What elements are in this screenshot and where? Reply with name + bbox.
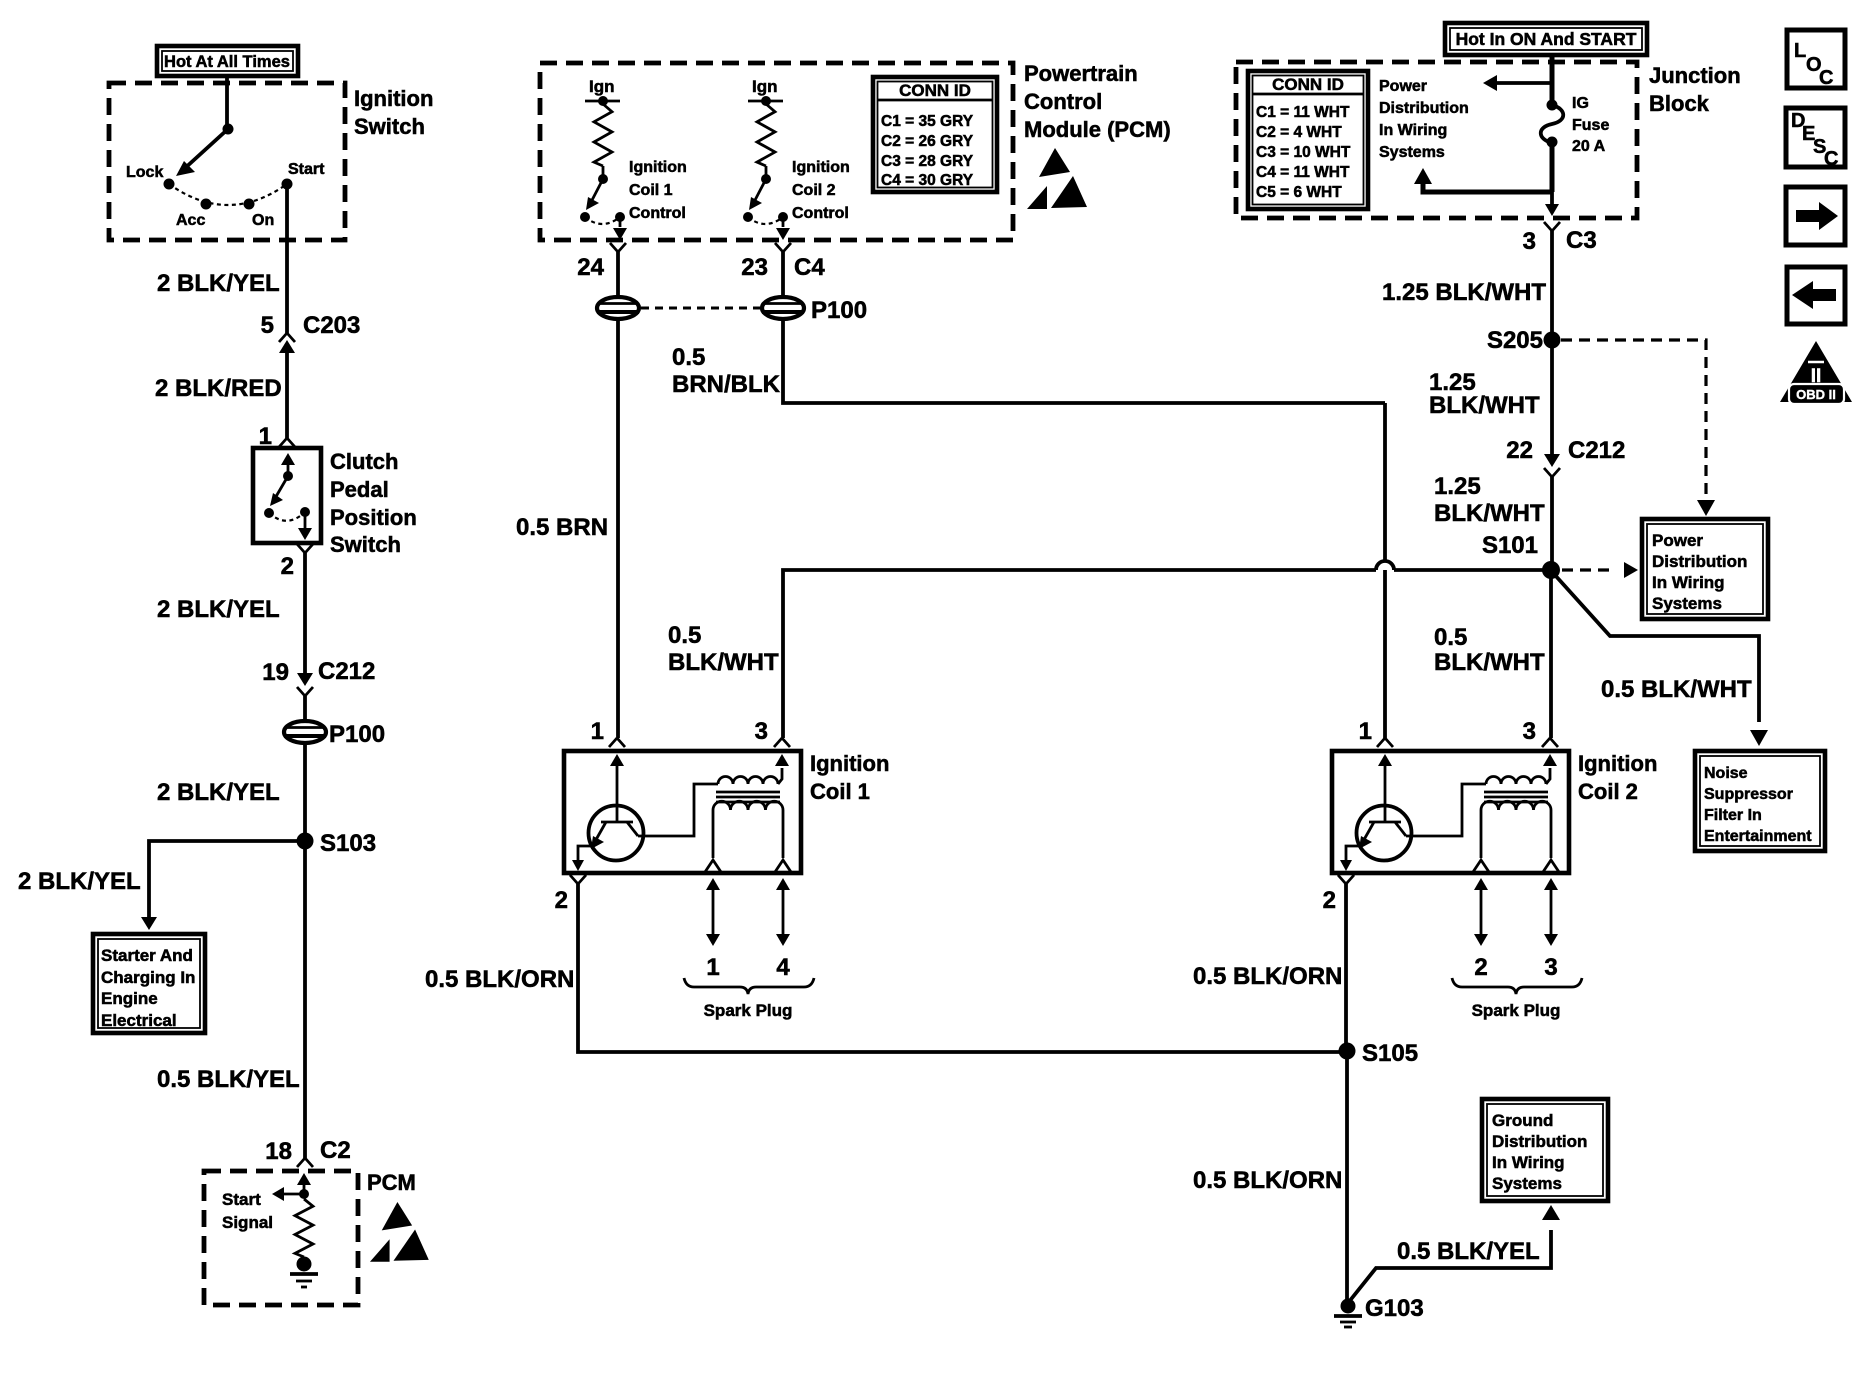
ignition switch pivot and arm (223, 124, 234, 135)
svg-text:BLK/WHT: BLK/WHT (1434, 649, 1545, 676)
junction block dashed box (1236, 62, 1637, 218)
sidebar icon forward arrow (1786, 187, 1845, 245)
svg-text:3: 3 (1523, 228, 1536, 255)
ground G103 (1341, 1299, 1356, 1314)
svg-text:Electrical: Electrical (101, 1011, 177, 1030)
svg-text:Control: Control (1024, 89, 1102, 114)
svg-text:Spark Plug: Spark Plug (1472, 1001, 1561, 1020)
svg-text:In Wiring: In Wiring (1652, 573, 1725, 592)
dashed link between P100 grommets (641, 307, 760, 310)
svg-text:2: 2 (1323, 887, 1336, 914)
PCM (top) dashed box (540, 63, 1013, 240)
coil 2 transistor (1378, 754, 1392, 766)
svg-text:Ignition: Ignition (354, 86, 433, 111)
svg-text:Charging In: Charging In (101, 968, 195, 987)
wire clutch switch to C212 (303, 553, 307, 672)
svg-text:C4: C4 (794, 254, 825, 281)
ref box: Starter And Charging In Engine Electrical (93, 934, 205, 1033)
wire C212 to P100 (303, 696, 307, 722)
svg-text:OBD II: OBD II (1796, 387, 1836, 402)
wire Start contact to C203 (285, 184, 289, 333)
svg-text:Ground: Ground (1492, 1111, 1553, 1130)
wire 0.5 BLK/ORN : S105 to G103 (1345, 1051, 1349, 1301)
svg-text:Distribution: Distribution (1379, 100, 1469, 117)
driver switch arm (590, 179, 603, 204)
ignition coil 1 box (564, 751, 801, 873)
branch wire to Ground Distribution (1348, 1230, 1551, 1303)
svg-text:C3 = 10 WHT: C3 = 10 WHT (1256, 144, 1351, 161)
driver output wire (782, 217, 785, 227)
driver output wire (619, 217, 622, 227)
svg-text:S103: S103 (320, 830, 376, 857)
svg-text:C2 = 4 WHT: C2 = 4 WHT (1256, 124, 1342, 141)
PCM start signal input (297, 1173, 311, 1185)
wire fuse output (1550, 142, 1555, 192)
svg-text:BRN/BLK: BRN/BLK (672, 371, 781, 398)
ref box: Noise Suppressor Filter In Entertainment (1695, 751, 1825, 851)
dashed arrow S101 to Power Distribution box (1562, 568, 1614, 571)
svg-text:Block: Block (1649, 91, 1710, 116)
resistor (PCM pull-down) (295, 1199, 313, 1257)
svg-text:P100: P100 (329, 721, 385, 748)
wire P100 to S103 (303, 743, 307, 841)
svg-text:0.5 BLK/ORN: 0.5 BLK/ORN (1193, 963, 1342, 990)
ignition switch position arc (dashed) (169, 184, 287, 205)
clutch switch pin 2 (297, 544, 313, 553)
svg-text:C5 = 6 WHT: C5 = 6 WHT (1256, 184, 1342, 201)
sidebar icon DESC (1786, 108, 1845, 167)
svg-text:In Wiring: In Wiring (1379, 122, 1447, 139)
svg-text:0.5: 0.5 (672, 344, 705, 371)
branch arrow to power distribution (upper) (1497, 81, 1552, 85)
svg-text:3: 3 (755, 718, 768, 745)
branch arrow to power distribution (lower) (1423, 184, 1552, 192)
svg-text:Pedal: Pedal (330, 477, 389, 502)
svg-text:5: 5 (261, 312, 274, 339)
svg-text:Ignition: Ignition (1578, 751, 1657, 776)
svg-text:Ignition: Ignition (792, 159, 850, 176)
connector C203 pin 5 (279, 333, 295, 342)
svg-text:Ign: Ign (589, 77, 615, 96)
svg-text:1: 1 (706, 954, 719, 981)
connector C2 pin 18 (297, 1158, 313, 1167)
wire hot feed into junction block (1550, 55, 1555, 105)
wire 0.5 BRN/BLK : P100 to coil2 pin 1 (783, 319, 1385, 403)
CONN ID table (junction block) (1248, 71, 1368, 209)
dashed branch S205 to Power Distribution box (1561, 340, 1706, 498)
svg-text:3: 3 (1523, 718, 1536, 745)
branch wire S103 to Starter/Charging (149, 841, 305, 918)
svg-text:C3: C3 (1566, 227, 1597, 254)
svg-text:C203: C203 (303, 312, 360, 339)
svg-text:Module (PCM): Module (PCM) (1024, 117, 1171, 142)
svg-text:C: C (1819, 67, 1833, 89)
svg-text:Starter And: Starter And (101, 946, 193, 965)
svg-text:Noise: Noise (1704, 765, 1748, 782)
svg-text:2 BLK/YEL: 2 BLK/YEL (157, 779, 280, 806)
svg-text:2 BLK/YEL: 2 BLK/YEL (157, 596, 280, 623)
svg-text:S105: S105 (1362, 1040, 1418, 1067)
svg-text:C2 = 26 GRY: C2 = 26 GRY (881, 133, 974, 150)
coil 1 transistor (610, 754, 624, 766)
svg-text:Clutch: Clutch (330, 449, 398, 474)
svg-text:S205: S205 (1487, 327, 1543, 354)
pass-through grommet P100 (coil1 ctrl) (597, 297, 639, 319)
svg-text:Engine: Engine (101, 989, 158, 1008)
wire pin23 to P100 (781, 252, 785, 297)
svg-text:Systems: Systems (1379, 144, 1445, 161)
ref box: Power Distribution In Wiring Systems (1642, 519, 1768, 619)
wire from Hot At All Times into ignition switch (225, 76, 229, 129)
svg-text:Entertainment: Entertainment (1704, 828, 1812, 845)
coil 2 primary winding (1406, 784, 1486, 836)
coil 2 core (1484, 791, 1548, 794)
svg-text:1.25 BLK/WHT: 1.25 BLK/WHT (1382, 279, 1546, 306)
clutch switch internals (281, 453, 295, 465)
svg-text:Distribution: Distribution (1492, 1132, 1587, 1151)
wire S101 to coil2 pin 3 : 0.5 BLK/WHT (1549, 570, 1553, 738)
svg-text:Switch: Switch (354, 114, 425, 139)
wire C212 to S101 : 1.25 BLK/WHT (1550, 477, 1554, 570)
coil 2 spark plug towers (1480, 888, 1483, 936)
pass-through grommet P100 (left) (284, 721, 326, 743)
flag: Hot In ON And START (1445, 23, 1647, 55)
coil 1 primary winding (638, 784, 718, 836)
coil 2 secondary winding (1481, 801, 1551, 810)
svg-text:Distribution: Distribution (1652, 552, 1747, 571)
ref box: Ground Distribution In Wiring Systems (1482, 1099, 1608, 1201)
PCM pin 24 (610, 243, 626, 252)
svg-text:0.5 BLK/ORN: 0.5 BLK/ORN (425, 966, 574, 993)
svg-text:C1 = 35 GRY: C1 = 35 GRY (881, 113, 974, 130)
svg-text:Position: Position (330, 505, 417, 530)
svg-text:BLK/WHT: BLK/WHT (668, 649, 779, 676)
svg-text:Power: Power (1652, 531, 1703, 550)
svg-text:Control: Control (792, 205, 849, 222)
wire 0.5 BLK/ORN : coil2 pin2 to S105 (1344, 884, 1348, 1052)
svg-text:C1 = 11 WHT: C1 = 11 WHT (1256, 104, 1350, 121)
svg-text:Acc: Acc (176, 212, 205, 229)
driver switch arm (753, 179, 766, 204)
resistor (coil driver) (757, 104, 775, 166)
svg-text:1: 1 (591, 718, 604, 745)
flag: Hot At All Times (157, 46, 298, 76)
coil 2 pin 2 (1338, 875, 1354, 884)
coil 1 secondary winding (713, 801, 783, 810)
svg-text:Hot In ON And START: Hot In ON And START (1456, 29, 1637, 49)
svg-text:19: 19 (262, 659, 289, 686)
svg-text:2 BLK/RED: 2 BLK/RED (155, 375, 282, 402)
svg-text:0.5 BLK/ORN: 0.5 BLK/ORN (1193, 1167, 1342, 1194)
PCM (bottom) dashed box (204, 1171, 358, 1305)
svg-text:0.5 BLK/WHT: 0.5 BLK/WHT (1601, 676, 1752, 703)
svg-text:C4 = 30 GRY: C4 = 30 GRY (881, 172, 974, 189)
wire S205 to C212 : 1.25 BLK/WHT (1550, 340, 1554, 455)
svg-text:Coil 1: Coil 1 (810, 779, 870, 804)
ignition switch SW1 box (dashed) (109, 83, 345, 240)
svg-text:Systems: Systems (1492, 1174, 1562, 1193)
wire 0.5 BLK/ORN : coil1 pin2 to S105 (578, 884, 1347, 1052)
resistor (coil driver) (594, 104, 612, 166)
svg-text:Ignition: Ignition (810, 751, 889, 776)
svg-text:S101: S101 (1482, 532, 1538, 559)
coil 1 pin 1 (609, 738, 625, 747)
ESD symbol (Powertrain) (1039, 148, 1070, 177)
branch wire S101 to Noise Suppressor : 0.5 BLK/WHT (1554, 574, 1759, 722)
svg-text:1: 1 (1359, 718, 1372, 745)
spark plug brace (684, 978, 814, 994)
svg-text:Systems: Systems (1652, 594, 1722, 613)
svg-text:On: On (252, 212, 274, 229)
PCM pin 23 / C4 (775, 243, 791, 252)
svg-text:C2: C2 (320, 1137, 351, 1164)
svg-text:CONN ID: CONN ID (1272, 75, 1344, 94)
ignition switch contact Acc (201, 199, 212, 210)
svg-text:L: L (1794, 40, 1806, 62)
svg-text:Switch: Switch (330, 532, 401, 557)
wire C3 to S205 : 1.25 BLK/WHT (1550, 231, 1554, 340)
vertical to coil2 pin1 (crosses under hop) (1383, 403, 1387, 561)
svg-text:0.5 BLK/YEL: 0.5 BLK/YEL (1397, 1238, 1540, 1265)
svg-text:2 BLK/YEL: 2 BLK/YEL (18, 868, 141, 895)
clutch switch pin 1 (279, 438, 295, 447)
wire 0.5 BRN : P100 to coil1 pin 1 (616, 319, 620, 738)
svg-text:Lock: Lock (126, 164, 163, 181)
svg-text:BLK/WHT: BLK/WHT (1434, 500, 1545, 527)
svg-text:C4 = 11 WHT: C4 = 11 WHT (1256, 164, 1350, 181)
svg-text:In Wiring: In Wiring (1492, 1153, 1565, 1172)
splice node S101 (1542, 561, 1560, 579)
svg-text:CONN ID: CONN ID (899, 81, 971, 100)
svg-text:Ign: Ign (752, 77, 778, 96)
svg-text:Control: Control (629, 205, 686, 222)
CONN ID table (PCM) (873, 77, 997, 192)
svg-text:0.5 BRN: 0.5 BRN (516, 514, 608, 541)
svg-text:Ignition: Ignition (629, 159, 687, 176)
splice node S205 (1544, 332, 1561, 349)
svg-text:Power: Power (1379, 78, 1427, 95)
svg-text:C3 = 28 GRY: C3 = 28 GRY (881, 153, 974, 170)
svg-text:IG: IG (1572, 95, 1589, 112)
svg-text:Filter In: Filter In (1704, 807, 1762, 824)
svg-text:23: 23 (741, 254, 768, 281)
ignition switch contact Start (282, 179, 293, 190)
svg-text:C212: C212 (318, 658, 375, 685)
coil 2 pin 1 (1377, 738, 1393, 747)
svg-text:2: 2 (555, 887, 568, 914)
ignition switch contact Lock (164, 179, 175, 190)
coil 2 pin 3 (1542, 738, 1558, 747)
svg-text:Coil 1: Coil 1 (629, 182, 673, 199)
svg-text:22: 22 (1506, 437, 1533, 464)
coil 1 pin 2 (570, 875, 586, 884)
sidebar icon LOC (1787, 30, 1845, 88)
sidebar icon OBD II triangle (1780, 341, 1852, 402)
svg-text:Spark Plug: Spark Plug (704, 1001, 793, 1020)
svg-text:4: 4 (776, 954, 790, 981)
svg-text:2: 2 (281, 553, 294, 580)
splice node S103 (297, 833, 314, 850)
svg-text:Coil 2: Coil 2 (1578, 779, 1638, 804)
wire 0.5 BLK/WHT : S101 to coil1 pin 3 (with hop) (1394, 568, 1547, 572)
svg-text:0.5: 0.5 (668, 622, 701, 649)
svg-text:Start: Start (288, 161, 325, 178)
svg-text:24: 24 (577, 254, 604, 281)
svg-text:20 A: 20 A (1572, 138, 1606, 155)
svg-text:3: 3 (1544, 954, 1557, 981)
wire C203 to clutch switch (285, 353, 289, 438)
ignition switch contact On (244, 199, 255, 210)
svg-text:Hot At All Times: Hot At All Times (164, 53, 290, 71)
pass-through grommet P100 (coil2 ctrl) (762, 297, 804, 319)
connector C212 pin 22 (1544, 454, 1560, 467)
wire S103 to PCM pin 18 (303, 841, 307, 1158)
coil 1 pin 3 (774, 738, 790, 747)
junction block output pin 3 / C3 (1550, 192, 1554, 205)
connector C212 pin 19 (303, 672, 307, 674)
svg-text:0.5: 0.5 (1434, 624, 1467, 651)
splice node S105 (1339, 1043, 1356, 1060)
svg-text:0.5 BLK/YEL: 0.5 BLK/YEL (157, 1066, 300, 1093)
svg-text:18: 18 (265, 1138, 292, 1165)
svg-text:PCM: PCM (367, 1170, 416, 1195)
sidebar icon back arrow (1787, 267, 1845, 324)
svg-text:P100: P100 (811, 297, 867, 324)
svg-text:C: C (1824, 148, 1838, 170)
svg-text:Junction: Junction (1649, 63, 1741, 88)
fuse IG 20A (1547, 100, 1558, 111)
ignition coil 2 box (1332, 751, 1569, 873)
svg-text:2: 2 (1474, 954, 1487, 981)
svg-text:Coil 2: Coil 2 (792, 182, 836, 199)
coil 1 core (716, 791, 780, 794)
svg-text:Start: Start (222, 1190, 261, 1209)
ESD symbol (PCM) (382, 1202, 412, 1230)
svg-text:Signal: Signal (222, 1213, 273, 1232)
svg-text:BLK/WHT: BLK/WHT (1429, 392, 1540, 419)
svg-text:2 BLK/YEL: 2 BLK/YEL (157, 270, 280, 297)
svg-text:Powertrain: Powertrain (1024, 61, 1138, 86)
clutch pedal position switch S1 box (253, 448, 321, 543)
coil 1 spark plug towers (712, 888, 715, 936)
ground (PCM internal) (297, 1257, 312, 1272)
spark plug brace (1452, 978, 1582, 994)
svg-text:G103: G103 (1365, 1295, 1424, 1322)
svg-text:Suppressor: Suppressor (1704, 786, 1793, 803)
svg-text:C212: C212 (1568, 437, 1625, 464)
svg-text:Fuse: Fuse (1572, 117, 1609, 134)
wire pin24 to P100 (616, 252, 620, 297)
svg-text:1.25: 1.25 (1434, 473, 1481, 500)
